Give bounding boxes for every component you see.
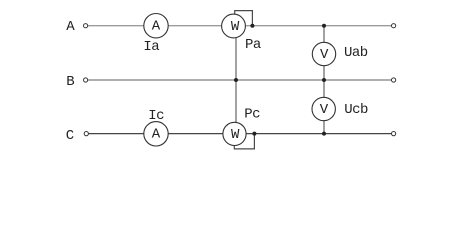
svg-text:Pc: Pc [244,107,260,123]
ammeter A (phase C) [144,122,168,146]
junction node on line C at x=324 [322,132,326,136]
value label Ic [148,108,164,124]
svg-text:B: B [66,74,74,90]
svg-text:A: A [152,127,161,143]
wire: voltmeter branch vertical (line A to line C) [323,26,325,134]
svg-text:Ucb: Ucb [344,102,368,118]
wire: wattmeter voltage-coil vertical (Pa/Pc to line B) [235,37,237,122]
terminal: line B right [392,78,396,82]
voltmeter Ucb [312,97,335,120]
node label C [66,128,74,144]
svg-text:C: C [66,128,74,144]
svg-text:V: V [320,102,329,118]
terminal: line A right [392,24,396,28]
voltmeter Uab [312,42,335,65]
value label Pa [245,37,261,53]
wire: phase line C [88,133,391,135]
value label Ia [143,39,159,55]
wire: phase line B [88,79,392,81]
value label Pc [244,107,260,123]
junction node on line C at x=254.4 [252,132,256,136]
terminal: line B left [84,78,88,82]
wattmeter Pa [222,14,246,38]
junction node on line B at x=324 [322,78,326,82]
wire: wattmeter Pc voltage tap loop [234,134,254,149]
junction dot on line B at x=236 [234,78,238,82]
terminal: line A left [84,24,88,28]
svg-text:Ic: Ic [148,108,164,124]
junction node on line A at x=324 [322,24,326,28]
node label B [66,74,74,90]
wattmeter Pc [223,122,246,145]
ammeter A (phase A) [144,14,168,38]
wire: wattmeter Pa voltage tap loop [235,11,253,26]
terminal: line C right [392,132,396,136]
svg-text:W: W [231,127,240,143]
junction node on line A at x=252.4 [250,24,254,28]
svg-text:W: W [231,19,240,35]
svg-text:V: V [320,47,329,63]
value label Uab [344,45,368,61]
svg-text:Ia: Ia [143,39,159,55]
svg-text:Uab: Uab [344,45,368,61]
terminal: line C left [84,132,88,136]
wire: phase line A [88,25,392,27]
node label A [66,19,75,35]
svg-text:A: A [152,19,161,35]
value label Ucb [344,102,368,118]
svg-text:Pa: Pa [245,37,261,53]
svg-text:A: A [66,19,75,35]
